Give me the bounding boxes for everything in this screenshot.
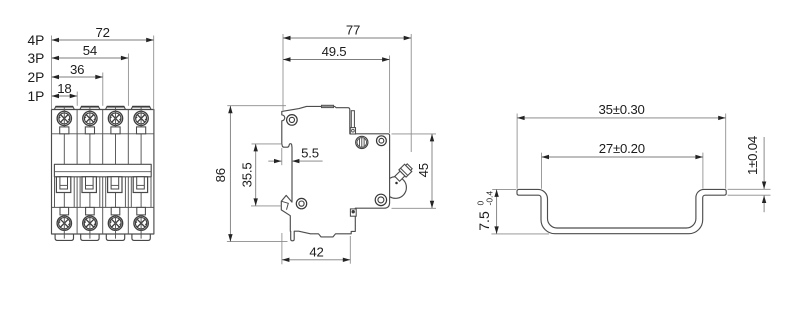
rivet bottom-right — [375, 194, 386, 205]
dimension 1±0.04 (rotated) — [728, 136, 771, 212]
dimension 77 — [283, 23, 411, 153]
side view body outline — [281, 106, 389, 240]
front view top terminal screws — [57, 111, 71, 125]
svg-text:1±0.04: 1±0.04 — [745, 136, 760, 175]
dimension 35.5 (rotated) — [239, 144, 281, 206]
DIN clip slider block — [350, 209, 356, 216]
dimension 5.5 — [268, 146, 322, 166]
pole divider lines — [77, 110, 128, 235]
toggle tip band on top edge — [321, 105, 333, 108]
terminal row separators — [52, 133, 154, 135]
DIN rail profile — [517, 189, 726, 233]
svg-text:72: 72 — [95, 25, 109, 40]
front view: 4-pole breaker body — [52, 106, 154, 240]
svg-text:42: 42 — [309, 244, 323, 259]
svg-text:4P: 4P — [28, 33, 45, 48]
toggle handle inner fold lines — [282, 201, 289, 210]
svg-text:54: 54 — [83, 43, 97, 58]
rivet top-left — [287, 115, 298, 126]
rear clip arc — [390, 177, 407, 199]
dimension 35±0.30 — [517, 102, 726, 189]
svg-text:1P: 1P — [28, 89, 45, 104]
terminal clamp windows — [60, 127, 146, 215]
front view bottom tabs — [55, 234, 150, 240]
front view bottom terminal screws — [57, 216, 71, 230]
front view dimension lines 72/54/36/18 with pole labels — [28, 25, 154, 110]
svg-text:49.5: 49.5 — [322, 44, 347, 59]
svg-text:86: 86 — [213, 168, 228, 182]
svg-text:5.5: 5.5 — [301, 146, 319, 161]
handle aperture lines — [55, 177, 152, 208]
dimension 7.5 0/-0.4 (rotated) — [476, 189, 549, 234]
dimension 49.5 — [283, 44, 390, 133]
svg-text:27±0.20: 27±0.20 — [599, 141, 645, 156]
svg-text:35.5: 35.5 — [239, 162, 254, 187]
dimension 27±0.20 — [542, 141, 703, 189]
toggle handles — [56, 177, 147, 193]
rivet bottom-left — [296, 198, 306, 208]
top slot tab base block — [350, 128, 355, 134]
dimension 42 — [282, 233, 350, 264]
pole center lines — [64, 106, 141, 238]
svg-text:18: 18 — [57, 81, 71, 96]
handle tie bar — [54, 164, 151, 177]
terminal screw at 45 degrees — [394, 163, 414, 183]
svg-text:2P: 2P — [28, 70, 45, 85]
svg-text:3P: 3P — [28, 51, 45, 66]
svg-text:45: 45 — [416, 163, 431, 177]
svg-text:77: 77 — [346, 23, 360, 38]
top slot tab — [351, 111, 354, 129]
dimension 86 (rotated) — [213, 106, 288, 242]
svg-text:35±0.30: 35±0.30 — [599, 102, 645, 117]
slotted calibration screw — [356, 136, 368, 148]
dimension 45 (rotated) — [392, 134, 437, 208]
svg-text:-0.4: -0.4 — [484, 191, 494, 206]
rivet top-right — [377, 136, 387, 146]
front view top mounting tabs — [54, 106, 151, 109]
svg-text:7.5: 7.5 — [476, 211, 492, 231]
svg-text:36: 36 — [70, 62, 84, 77]
